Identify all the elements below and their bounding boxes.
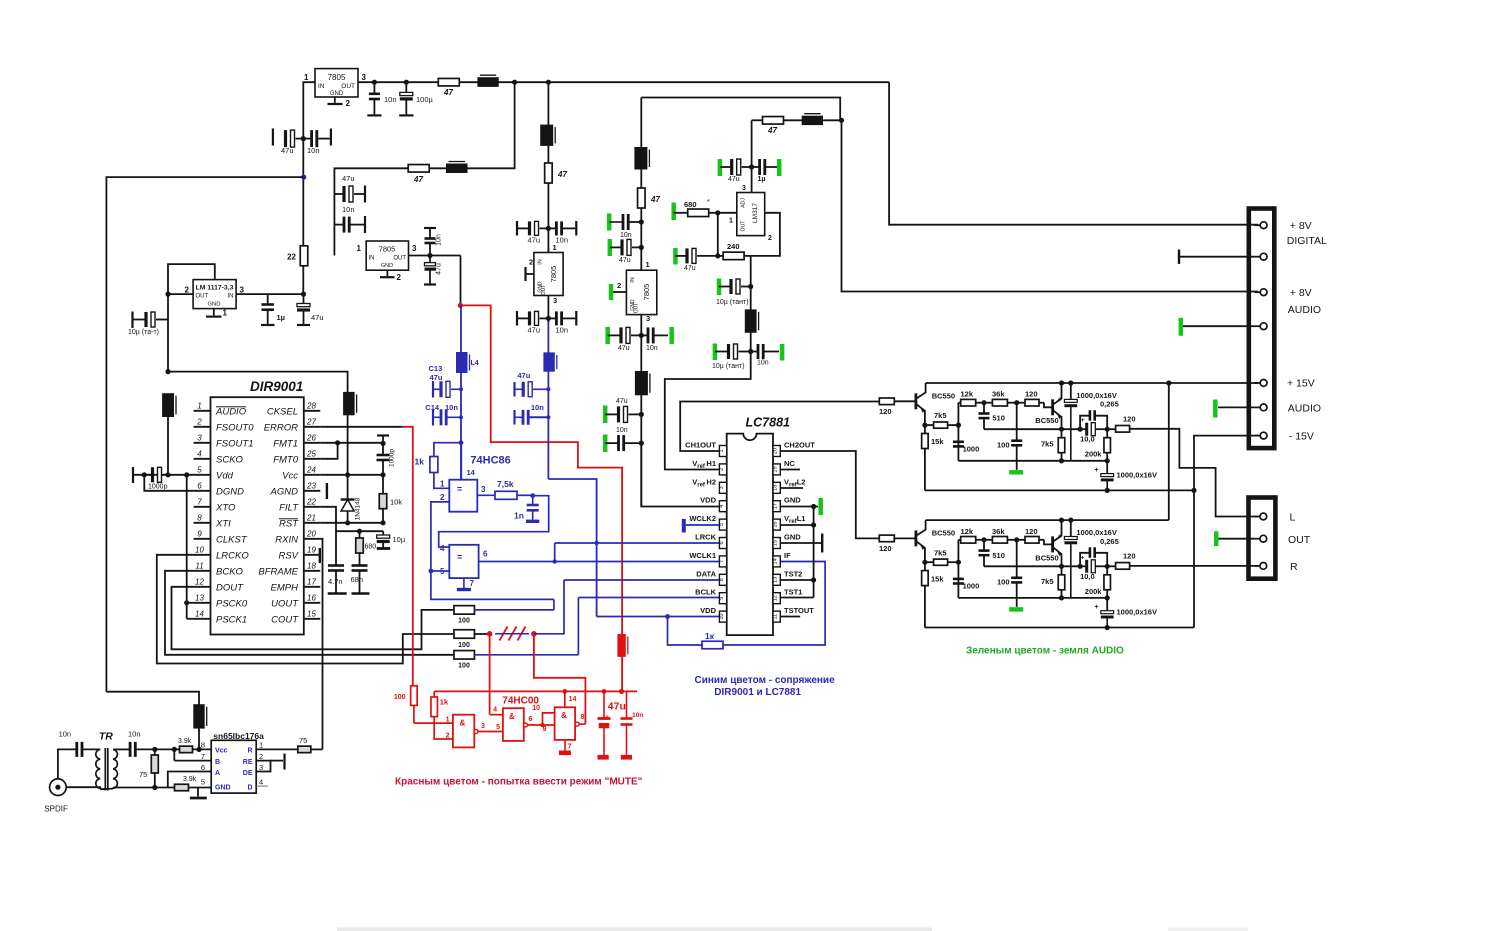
svg-text:+: +	[605, 712, 610, 721]
svg-text:2: 2	[346, 99, 351, 108]
J2 pin OUT	[1254, 538, 1259, 540]
svg-text:GND: GND	[784, 533, 801, 542]
resistor 36k S1	[984, 402, 992, 404]
U1 pin 2 FSOUT0 stub	[194, 426, 211, 428]
wire blue LRCK-VDD feed	[548, 479, 596, 617]
wire RSV tick	[319, 548, 321, 563]
svg-text:IN: IN	[538, 259, 544, 265]
resistor 75 vert	[154, 749, 156, 755]
capacitor 1000,0x16V top S2	[1070, 520, 1072, 536]
svg-text:1000: 1000	[963, 581, 980, 590]
capacitor 1000p-2	[377, 434, 389, 436]
U10 pin 16 VrefL1	[773, 519, 780, 530]
svg-text:LM 1117-3,3: LM 1117-3,3	[196, 285, 234, 292]
svg-text:2: 2	[440, 493, 445, 502]
svg-text:5: 5	[201, 778, 205, 787]
svg-text:14: 14	[195, 609, 204, 618]
node q2c S2	[1059, 518, 1064, 523]
svg-text:1: 1	[719, 449, 725, 452]
node sec-bot	[152, 785, 157, 790]
U10 pin 13 TST2	[773, 574, 780, 585]
svg-text:WCLK2: WCLK2	[689, 514, 716, 523]
svg-text:10n: 10n	[531, 403, 544, 412]
svg-text:36k: 36k	[992, 390, 1005, 399]
svg-text:3: 3	[412, 244, 417, 253]
svg-text:120: 120	[879, 407, 892, 416]
svg-text:3: 3	[240, 286, 245, 295]
wire node row S1	[984, 428, 1080, 430]
U1 pin 16 UOUT stub	[304, 602, 321, 604]
gate U8A body	[449, 480, 477, 512]
cap pair 47u/10n green row335	[605, 327, 610, 344]
transistor Q1 S1 BC550	[894, 400, 916, 402]
svg-text:*: *	[707, 199, 710, 206]
capacitor 10µ el	[382, 531, 384, 534]
wire DGND loop	[144, 475, 193, 491]
U1 pin 28 CKSEL stub	[304, 410, 321, 412]
wire VDD4 feed	[641, 443, 719, 506]
cap pair 47u/1µ green row167	[718, 159, 723, 176]
mute hatch slashes	[500, 627, 508, 641]
svg-text:GND: GND	[215, 785, 231, 792]
wire LRCK link	[554, 543, 556, 562]
U1 pin 20 RXIN stub	[304, 538, 321, 540]
wire bottom rail S2	[925, 627, 1194, 629]
svg-text:FMT0: FMT0	[273, 454, 299, 465]
svg-text:10n: 10n	[128, 730, 141, 739]
node A2	[546, 80, 551, 85]
svg-text:XTI: XTI	[215, 518, 231, 529]
svg-text:+: +	[1081, 417, 1085, 424]
svg-text:6: 6	[483, 550, 488, 559]
svg-text:PSCK1: PSCK1	[216, 614, 247, 625]
wire DATA riser	[534, 580, 564, 634]
svg-text:100: 100	[458, 663, 470, 670]
U1 pin 15 COUT stub	[304, 618, 321, 620]
svg-text:47u: 47u	[528, 326, 541, 335]
resistor 200k S2	[1106, 566, 1108, 575]
wire WCLK2 tick blue	[686, 524, 719, 526]
wire GND15 tick	[780, 542, 821, 544]
U10 pin 2 VrefH1	[719, 464, 726, 475]
svg-text:68n: 68n	[351, 575, 364, 584]
svg-text:DOUT: DOUT	[216, 582, 244, 593]
svg-text:OUT: OUT	[1288, 534, 1311, 546]
svg-text:3: 3	[742, 185, 746, 192]
wire spdif bottom	[66, 787, 100, 788]
resistor 120 out S2	[1107, 565, 1115, 567]
U10 pin 11 TSTOUT	[773, 611, 780, 622]
svg-text:OUT: OUT	[634, 303, 640, 314]
svg-text:47u: 47u	[430, 373, 443, 382]
J1 pin 5	[1255, 382, 1260, 384]
svg-text:47u: 47u	[281, 146, 294, 155]
svg-text:10n: 10n	[632, 712, 643, 719]
U9A out bubble pin3	[474, 730, 478, 734]
wire 100top blue	[474, 609, 554, 611]
node sec-75	[152, 747, 157, 752]
svg-text:11: 11	[773, 614, 779, 620]
IC U1 DIR9001 body	[211, 397, 304, 634]
resistor 12k S1	[958, 402, 960, 404]
wire AGND tick	[326, 483, 328, 499]
cap 47u green row247	[608, 239, 613, 256]
svg-text:47u: 47u	[684, 265, 696, 272]
wire TST1	[780, 597, 813, 599]
svg-text:2: 2	[185, 286, 190, 295]
U9C pin14	[564, 691, 566, 707]
capacitor 100 S1	[1016, 403, 1018, 441]
svg-text:16: 16	[773, 522, 779, 528]
svg-text:AUDIO: AUDIO	[1288, 403, 1321, 415]
svg-text:3.9k: 3.9k	[183, 776, 197, 783]
svg-text:TST1: TST1	[784, 588, 802, 597]
svg-text:BC550: BC550	[932, 528, 955, 537]
U1 pin 13 PSCK0 stub	[194, 602, 211, 604]
svg-text:XTO: XTO	[215, 502, 236, 513]
ferrite bead FB6	[802, 116, 822, 124]
svg-text:7,5k: 7,5k	[497, 479, 514, 489]
diode D1 1N4148	[347, 475, 349, 500]
capacitor 1000 S1	[953, 440, 964, 443]
svg-text:L: L	[1290, 512, 1296, 524]
svg-text:+ 8V: + 8V	[1290, 220, 1312, 232]
svg-text:2: 2	[196, 417, 202, 426]
svg-text:Vcc: Vcc	[282, 470, 298, 481]
svg-text:12k: 12k	[961, 390, 974, 399]
svg-text:+: +	[1081, 554, 1085, 561]
node 12k-in S2	[956, 560, 961, 565]
resistor 680-2	[359, 531, 361, 538]
svg-text:10n: 10n	[342, 205, 355, 214]
gate U9C body	[555, 707, 576, 740]
transformer TR secondary	[113, 749, 117, 788]
svg-text:680: 680	[684, 200, 697, 209]
J1 pin 2	[1255, 256, 1260, 258]
capacitor 1µ	[261, 303, 274, 306]
svg-text:18: 18	[307, 561, 316, 570]
node emitter S1	[922, 423, 927, 428]
IC U11 body	[211, 740, 256, 793]
wire LRCKO bus	[157, 555, 454, 664]
wire CH1OUT loop	[680, 402, 879, 452]
svg-text:BCKO: BCKO	[216, 566, 244, 577]
svg-text:7k5: 7k5	[1041, 440, 1054, 449]
svg-text:8: 8	[201, 741, 205, 750]
U1 pin 24 Vcc stub	[304, 474, 321, 476]
U9B out bubble pin6	[524, 723, 528, 727]
svg-text:A: A	[215, 770, 220, 777]
node 12k-in S1	[956, 423, 961, 428]
wire -15V drop	[1194, 436, 1258, 628]
svg-text:100: 100	[997, 577, 1010, 586]
capacitor pair row 228 col3	[516, 221, 518, 236]
svg-text:240: 240	[727, 242, 740, 251]
svg-text:COUT: COUT	[271, 614, 299, 625]
wire col x641 vertical	[640, 98, 642, 507]
svg-text:15: 15	[307, 609, 316, 618]
svg-text:100: 100	[394, 694, 406, 701]
capacitor 0,265 S1	[1080, 416, 1090, 430]
U1 pin 7 XTO stub	[194, 506, 211, 508]
wire B tie	[173, 749, 175, 760]
ferrite bead FB-Vcc	[344, 392, 355, 414]
node 36k S1	[981, 400, 986, 405]
U3 ground pin 1	[213, 309, 215, 316]
svg-text:2: 2	[446, 733, 450, 740]
wire LM317 out down	[750, 256, 752, 287]
node vcc-1000p	[380, 472, 385, 477]
svg-text:47u: 47u	[608, 701, 626, 713]
wire 74HC86 pin14	[460, 443, 462, 480]
svg-text:OUT: OUT	[393, 256, 406, 262]
resistor 100 bot	[454, 651, 475, 660]
svg-text:TST2: TST2	[784, 569, 802, 578]
capacitor 10n red	[626, 691, 628, 718]
capacitor 47u tap row2	[334, 193, 344, 195]
svg-text:+: +	[1058, 534, 1062, 541]
svg-text:10µ: 10µ	[393, 535, 406, 544]
svg-text:4: 4	[259, 778, 263, 787]
regulator U5 7805 rotated	[534, 253, 563, 296]
wire fb8 top	[106, 692, 199, 705]
svg-text:BC550: BC550	[1035, 416, 1058, 425]
U1 pin 27 ERROR stub	[304, 426, 321, 428]
svg-text:10µ (та-т): 10µ (та-т)	[128, 329, 159, 336]
wire 7805#1 OUT rail +5V	[358, 81, 889, 83]
wire pin1 U2 input	[303, 82, 315, 294]
wire top rail S1	[926, 382, 1169, 384]
svg-text:CH2OUT: CH2OUT	[784, 441, 815, 450]
resistor 15k S1	[924, 425, 926, 433]
svg-text:19: 19	[773, 466, 779, 472]
resistor 7k5 v S1	[1061, 429, 1063, 438]
U6 pin2 green gnd	[613, 291, 626, 293]
svg-text:2: 2	[768, 235, 772, 242]
capacitor 10n tap row2	[334, 224, 344, 226]
svg-text:22: 22	[306, 497, 316, 506]
ferrite bead FB7	[745, 310, 756, 332]
U1 pin 18 BFRAME stub	[304, 570, 321, 572]
wire R out	[256, 748, 298, 750]
U5 pin2 left	[527, 273, 534, 275]
svg-text:0,265: 0,265	[1100, 537, 1119, 546]
node mute2	[531, 631, 537, 637]
wire 47 row2	[334, 82, 514, 255]
svg-text:DIGITAL: DIGITAL	[1287, 235, 1327, 247]
svg-text:1: 1	[357, 244, 362, 253]
J1 pin 1	[1255, 224, 1260, 226]
svg-text:2: 2	[397, 273, 402, 282]
resistor 120 S1	[1017, 402, 1025, 404]
svg-text:10n: 10n	[307, 146, 320, 155]
resistor 10k	[382, 475, 384, 494]
svg-text:EMPH: EMPH	[271, 582, 299, 593]
U1 pin 9 CLKST stub	[194, 538, 211, 540]
svg-text:680: 680	[365, 544, 377, 551]
svg-text:10n: 10n	[757, 360, 769, 367]
svg-text:1: 1	[646, 260, 650, 269]
wire Vdd-PSCK tie	[186, 475, 188, 619]
svg-text:ERROR: ERROR	[264, 422, 298, 433]
svg-text:5: 5	[719, 523, 725, 526]
svg-text:75: 75	[299, 736, 307, 745]
svg-text:DIR9001 и LC7881: DIR9001 и LC7881	[714, 687, 801, 698]
svg-text:14: 14	[467, 468, 476, 477]
svg-text:120: 120	[1025, 527, 1038, 536]
wire LM317 in	[751, 120, 753, 192]
capacitor 10n blue mid	[513, 410, 515, 425]
svg-text:7805: 7805	[328, 73, 346, 82]
node A S1	[1078, 427, 1083, 432]
resistor 1k red	[433, 691, 435, 697]
capacitor C14 10n	[432, 409, 434, 426]
cap 47u green row256	[673, 248, 678, 265]
svg-text:6: 6	[197, 481, 202, 490]
ground audio S2	[1016, 598, 1018, 607]
node vcc-fer2	[345, 472, 350, 477]
U7 pin1 ADJ wire	[718, 212, 737, 214]
wire RC loop to pin4	[439, 496, 549, 547]
svg-text:18: 18	[773, 485, 779, 491]
svg-text:7: 7	[568, 744, 572, 751]
transformer TR primary	[96, 749, 100, 788]
ferrite bead FB4	[635, 148, 647, 170]
svg-text:RE: RE	[243, 759, 253, 766]
cap 47u green row414	[603, 406, 608, 424]
svg-text:10: 10	[532, 705, 540, 712]
svg-text:9: 9	[719, 597, 725, 600]
svg-text:13: 13	[195, 593, 204, 602]
gate U8B body	[449, 545, 478, 578]
resistor 47 row3	[763, 117, 784, 125]
svg-text:IF: IF	[784, 551, 791, 560]
U1 pin 17 EMPH stub	[304, 586, 321, 588]
svg-text:26: 26	[306, 433, 316, 442]
J2 pin L	[1254, 516, 1259, 518]
capacitor 10µ tantalum	[167, 294, 169, 372]
wire left rail 8V	[106, 177, 303, 692]
U10 pin 3 VrefH2	[719, 482, 726, 493]
wire DATA row	[564, 579, 719, 581]
svg-text:7: 7	[719, 560, 725, 563]
regulator U6 7805 rotated	[626, 270, 656, 314]
svg-text:1000p: 1000p	[389, 449, 396, 467]
svg-text:19: 19	[307, 545, 316, 554]
svg-text:1000,0x16V: 1000,0x16V	[1076, 528, 1116, 537]
U1 pin 19 RSV stub	[304, 554, 321, 556]
wire S1 out to L	[1130, 429, 1258, 517]
svg-text:47u: 47u	[436, 263, 443, 275]
capacitor 4.7n	[328, 564, 344, 567]
svg-text:1N4148: 1N4148	[355, 497, 362, 520]
capacitor 100µ	[405, 82, 407, 92]
capacitor 510 S2	[983, 540, 985, 550]
wire DOUT bus	[172, 587, 454, 650]
U1 pin 12 DOUT stub	[194, 586, 211, 588]
gate U9B body	[503, 708, 524, 741]
svg-text:47: 47	[767, 126, 777, 135]
svg-text:4: 4	[719, 505, 725, 508]
svg-text:28: 28	[306, 401, 316, 410]
wire BCLK row	[578, 597, 719, 599]
svg-text:GND: GND	[784, 496, 801, 505]
node LM1117 IN	[301, 292, 306, 297]
IC U10 LC7881 body	[727, 434, 773, 635]
resistor 680 with gnd	[671, 203, 676, 221]
svg-text:2: 2	[719, 468, 725, 471]
svg-text:PSCK0: PSCK0	[216, 598, 248, 609]
svg-text:LM317: LM317	[752, 203, 759, 223]
svg-text:RXIN: RXIN	[275, 534, 298, 545]
capacitor 10,0 S2	[1080, 565, 1087, 567]
svg-text:IN: IN	[369, 256, 375, 262]
wire 1k loop blue	[668, 617, 703, 646]
regulator U4 7805 body	[366, 241, 408, 270]
U1 pin 22 FILT stub	[304, 506, 321, 508]
connector J1 power	[1249, 209, 1275, 449]
node pin14 junction	[459, 440, 464, 445]
svg-text:23: 23	[306, 481, 316, 490]
svg-text:IN: IN	[630, 277, 636, 283]
svg-text:10k: 10k	[390, 498, 402, 507]
svg-text:10n: 10n	[59, 730, 72, 739]
U10 pin 17 GND	[773, 501, 780, 512]
svg-text:3.9k: 3.9k	[178, 738, 192, 745]
svg-text:NC: NC	[784, 459, 795, 468]
svg-text:7k5: 7k5	[1041, 577, 1054, 586]
svg-text:4.7n: 4.7n	[328, 577, 343, 586]
U1 pin 26 FMT1 stub	[304, 442, 321, 444]
capacitor 10n in	[75, 742, 78, 757]
node A S2	[1078, 564, 1083, 569]
node 120 S2	[1014, 537, 1019, 542]
node B1	[301, 136, 306, 141]
wire RE-DE tie	[256, 761, 270, 772]
svg-text:5: 5	[496, 724, 500, 731]
inductor L5 blue	[544, 353, 554, 371]
svg-text:Vcc: Vcc	[215, 748, 228, 755]
U1 pin 10 LRCKO stub	[194, 554, 211, 556]
svg-text:SCKO: SCKO	[216, 454, 244, 465]
svg-text:6: 6	[529, 716, 533, 723]
svg-text:C13: C13	[429, 364, 443, 373]
wire ERROR red link	[320, 426, 402, 428]
wire col3 to caps	[547, 183, 549, 253]
svg-text:120: 120	[1025, 390, 1038, 399]
svg-text:1: 1	[440, 480, 445, 489]
svg-text:200k: 200k	[1085, 450, 1103, 459]
U10 pin 14 IF	[773, 556, 780, 567]
wire pins 9-10 tie	[543, 713, 555, 725]
svg-text:6: 6	[201, 763, 205, 772]
resistor 240	[718, 255, 723, 257]
node Vdd rail	[165, 369, 170, 374]
wire LRCK row	[555, 542, 720, 544]
svg-text:47: 47	[443, 88, 453, 97]
capacitor 47u at U3 in	[303, 294, 305, 303]
U10 pin 19 NC	[773, 464, 780, 475]
wire VDD10 row	[597, 616, 720, 618]
svg-text:Vdd: Vdd	[216, 470, 234, 481]
U8B pin5 wire	[431, 570, 449, 572]
capacitor C13 47u	[432, 381, 434, 398]
node rail-reddrop	[619, 689, 624, 694]
svg-text:1000p: 1000p	[148, 484, 168, 491]
svg-text:16: 16	[307, 593, 316, 602]
wire B pin	[174, 760, 211, 762]
node pin5 tie	[429, 569, 434, 574]
